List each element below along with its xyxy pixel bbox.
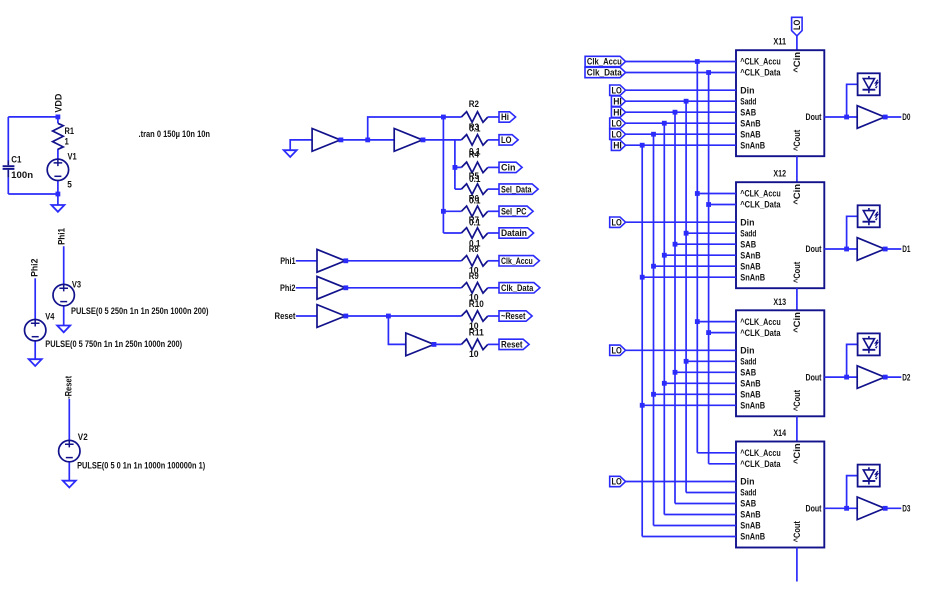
svg-text:V1: V1 xyxy=(68,151,77,161)
svg-text:^Cin: ^Cin xyxy=(792,443,802,464)
svg-text:X12: X12 xyxy=(773,169,786,179)
svg-text:^Cout: ^Cout xyxy=(792,130,802,151)
svg-text:R8: R8 xyxy=(469,244,479,254)
svg-text:LO: LO xyxy=(612,118,622,128)
svg-text:.tran 0 150µ 10n 10n: .tran 0 150µ 10n 10n xyxy=(139,129,211,139)
svg-text:5: 5 xyxy=(67,180,72,190)
svg-text:Dout: Dout xyxy=(806,244,822,254)
svg-text:R3: R3 xyxy=(469,122,479,132)
svg-text:X14: X14 xyxy=(773,428,786,438)
svg-text:VDD: VDD xyxy=(53,94,63,113)
svg-text:SAnB: SAnB xyxy=(740,379,760,389)
svg-text:^CLK_Data: ^CLK_Data xyxy=(740,200,780,210)
svg-text:Sadd: Sadd xyxy=(740,357,756,367)
svg-text:^CLK_Accu: ^CLK_Accu xyxy=(740,448,780,458)
svg-text:^Cin: ^Cin xyxy=(792,52,802,73)
svg-text:R1: R1 xyxy=(65,126,75,136)
svg-text:Phi1: Phi1 xyxy=(56,228,66,245)
svg-text:SnAnB: SnAnB xyxy=(740,272,765,282)
svg-text:SAnB: SAnB xyxy=(740,510,760,520)
svg-text:D0: D0 xyxy=(902,112,910,122)
svg-text:Sadd: Sadd xyxy=(740,488,756,498)
svg-text:^CLK_Accu: ^CLK_Accu xyxy=(740,57,780,67)
svg-text:^CLK_Accu: ^CLK_Accu xyxy=(740,317,780,327)
svg-text:Clk_Accu: Clk_Accu xyxy=(501,256,533,266)
svg-text:SAnB: SAnB xyxy=(740,250,760,260)
svg-text:Sadd: Sadd xyxy=(740,96,756,106)
svg-text:PULSE(0 5 0 1n 1n 1000n 100000: PULSE(0 5 0 1n 1n 1000n 100000n 1) xyxy=(77,461,205,471)
svg-text:R10: R10 xyxy=(469,299,484,309)
svg-text:Clk_Data: Clk_Data xyxy=(587,68,622,78)
svg-text:LO: LO xyxy=(612,217,622,227)
svg-text:R7: R7 xyxy=(469,215,479,225)
svg-text:R2: R2 xyxy=(469,99,479,109)
svg-text:Clk_Data: Clk_Data xyxy=(501,283,533,293)
svg-text:^Cout: ^Cout xyxy=(792,390,802,411)
svg-text:SAB: SAB xyxy=(740,368,756,378)
svg-text:SAnB: SAnB xyxy=(740,118,760,128)
svg-text:SnAB: SnAB xyxy=(740,521,760,531)
svg-text:LO: LO xyxy=(612,477,622,487)
svg-text:Hi: Hi xyxy=(501,112,509,122)
svg-text:~Reset: ~Reset xyxy=(501,311,526,321)
svg-text:Reset: Reset xyxy=(275,311,296,321)
svg-text:C1: C1 xyxy=(11,154,21,164)
svg-text:Sel_Data: Sel_Data xyxy=(501,184,532,194)
svg-text:HI: HI xyxy=(613,96,622,106)
svg-text:Sel_PC: Sel_PC xyxy=(501,207,527,217)
svg-text:-Reset: -Reset xyxy=(64,376,74,399)
svg-text:^CLK_Data: ^CLK_Data xyxy=(740,459,780,469)
svg-text:SAB: SAB xyxy=(740,107,756,117)
svg-text:Phi2: Phi2 xyxy=(280,283,296,293)
svg-text:Cin: Cin xyxy=(501,163,516,173)
svg-text:PULSE(0 5 250n 1n 1n 250n 1000: PULSE(0 5 250n 1n 1n 250n 1000n 200) xyxy=(71,306,209,316)
svg-text:Din: Din xyxy=(740,85,754,95)
svg-text:^Cout: ^Cout xyxy=(792,262,802,283)
svg-text:^Cin: ^Cin xyxy=(792,184,802,205)
svg-text:X11: X11 xyxy=(773,37,786,47)
svg-text:Datain: Datain xyxy=(501,228,527,238)
svg-text:PULSE(0 5 750n 1n 1n 250n 1000: PULSE(0 5 750n 1n 1n 250n 1000n 200) xyxy=(45,339,182,349)
svg-text:V4: V4 xyxy=(45,312,54,322)
svg-text:D1: D1 xyxy=(902,244,910,254)
svg-text:Phi2: Phi2 xyxy=(30,258,40,276)
svg-text:LO: LO xyxy=(612,129,622,139)
svg-text:HI: HI xyxy=(613,107,622,117)
svg-text:Din: Din xyxy=(740,217,754,227)
svg-text:10: 10 xyxy=(469,349,479,359)
svg-text:LO: LO xyxy=(612,85,622,95)
svg-text:SnAnB: SnAnB xyxy=(740,401,765,411)
svg-text:SnAB: SnAB xyxy=(740,261,760,271)
svg-text:Sadd: Sadd xyxy=(740,228,756,238)
svg-text:D2: D2 xyxy=(902,372,910,382)
svg-text:LO: LO xyxy=(501,135,512,145)
svg-text:SnAB: SnAB xyxy=(740,390,760,400)
svg-text:^CLK_Data: ^CLK_Data xyxy=(740,68,780,78)
svg-text:R9: R9 xyxy=(469,271,479,281)
svg-text:Dout: Dout xyxy=(806,112,822,122)
svg-text:^Cin: ^Cin xyxy=(792,312,802,333)
svg-text:^CLK_Accu: ^CLK_Accu xyxy=(740,189,780,199)
svg-text:Clk_Accu: Clk_Accu xyxy=(587,57,622,67)
svg-text:SnAnB: SnAnB xyxy=(740,532,765,542)
svg-text:R11: R11 xyxy=(469,328,484,338)
svg-text:X13: X13 xyxy=(773,297,786,307)
svg-text:1: 1 xyxy=(65,137,69,147)
svg-text:Dout: Dout xyxy=(806,372,822,382)
svg-text:R4: R4 xyxy=(469,150,479,160)
svg-text:SnAnB: SnAnB xyxy=(740,140,765,150)
svg-text:V3: V3 xyxy=(72,279,81,289)
svg-text:LO: LO xyxy=(612,346,622,356)
svg-text:SAB: SAB xyxy=(740,499,756,509)
svg-text:Phi1: Phi1 xyxy=(280,256,295,266)
svg-text:SnAB: SnAB xyxy=(740,129,760,139)
svg-text:SAB: SAB xyxy=(740,239,756,249)
svg-text:Din: Din xyxy=(740,477,754,487)
svg-text:100n: 100n xyxy=(11,170,33,180)
svg-text:R6: R6 xyxy=(469,193,479,203)
svg-text:D3: D3 xyxy=(902,504,910,514)
svg-text:^CLK_Data: ^CLK_Data xyxy=(740,328,780,338)
svg-text:Dout: Dout xyxy=(806,504,822,514)
svg-text:Reset: Reset xyxy=(501,340,523,350)
svg-text:HI: HI xyxy=(613,140,622,150)
svg-text:LO: LO xyxy=(792,20,802,30)
svg-text:Din: Din xyxy=(740,346,754,356)
svg-text:R5: R5 xyxy=(469,171,479,181)
svg-text:V2: V2 xyxy=(78,432,88,442)
svg-text:^Cout: ^Cout xyxy=(792,521,802,542)
